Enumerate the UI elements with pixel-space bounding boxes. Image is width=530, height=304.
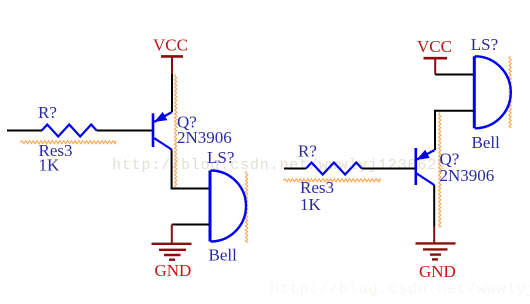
power port GND (left): [152, 225, 192, 260]
svg-text:LS?: LS?: [471, 35, 498, 54]
wire (right input to R2): [284, 168, 306, 170]
svg-text:1K: 1K: [300, 195, 322, 214]
svg-text:LS?: LS?: [207, 148, 234, 167]
svg-text:R?: R?: [298, 141, 317, 160]
power port VCC (left): [161, 56, 183, 74]
svg-text:Bell: Bell: [209, 246, 238, 265]
wire (Q1 collector to LS1 pin 1): [172, 150, 209, 189]
error squiggle (right speaker): [509, 56, 511, 128]
error squiggle (right transistor net): [439, 113, 441, 228]
wire (R1 to Q1 base): [97, 130, 153, 132]
svg-text:VCC: VCC: [417, 37, 452, 56]
svg-text:1K: 1K: [39, 155, 61, 174]
speaker LS? Bell (left): [210, 171, 246, 242]
svg-text:GND: GND: [155, 261, 192, 280]
wire (left input to R1): [7, 130, 42, 132]
wire (LS1 pin 2 to GND): [172, 224, 209, 226]
error squiggle (right resistor net): [283, 179, 380, 182]
transistor Q? 2N3906 (right, PNP): [416, 148, 435, 185]
svg-text:http://blog.csdn.net/wwwlyj123: http://blog.csdn.net/wwwlyj1230621: [270, 281, 530, 298]
svg-text:http://blog.csdn.net/wwwlyj123: http://blog.csdn.net/wwwlyj1230621: [112, 157, 447, 174]
wire (LS2 pin 2 to Q2 emitter): [435, 111, 474, 150]
error squiggle (left resistor net): [20, 141, 116, 144]
wire (VCC to Q1 emitter): [171, 74, 173, 112]
wire (R2 to Q2 base): [362, 168, 415, 170]
svg-text:GND: GND: [419, 262, 456, 281]
wire (Q2 collector to GND): [433, 185, 435, 227]
svg-text:2N3906: 2N3906: [440, 166, 495, 185]
power port VCC (right): [424, 58, 448, 74]
svg-text:R?: R?: [38, 103, 57, 122]
resistor R? (Res3 1K): [42, 125, 97, 137]
wire (VCC to LS2 pin 1): [435, 74, 473, 76]
transistor Q? 2N3906 (left, PNP): [153, 112, 172, 150]
speaker LS? Bell (right): [474, 56, 511, 128]
resistor R? (Res3 1K, right): [306, 163, 362, 175]
error squiggle (left transistor net): [174, 74, 176, 189]
error squiggle (left speaker): [245, 171, 247, 243]
svg-text:2N3906: 2N3906: [177, 128, 232, 147]
svg-text:Bell: Bell: [472, 133, 501, 152]
power port GND (right): [416, 227, 456, 260]
svg-text:VCC: VCC: [153, 35, 188, 54]
